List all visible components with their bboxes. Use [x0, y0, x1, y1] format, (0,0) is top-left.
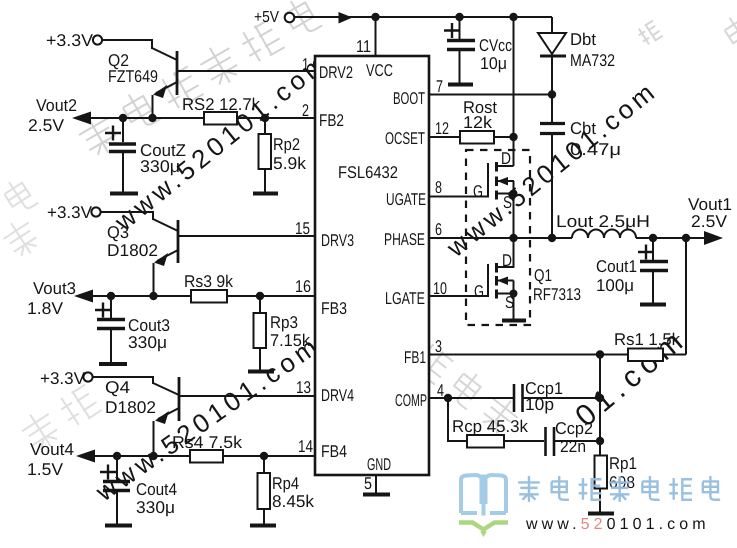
svg-text:8: 8 [435, 178, 442, 197]
diode Dbt MA732 [538, 17, 615, 94]
svg-text:4: 4 [437, 381, 444, 400]
wire BOOT pin 7 [429, 94, 552, 96]
wire DRV2 pin 1 [177, 70, 315, 72]
junction Rp2 tap [261, 114, 269, 122]
svg-text:FSL6432: FSL6432 [338, 163, 398, 182]
svg-text:Rcp 45.3k: Rcp 45.3k [452, 417, 528, 436]
svg-text:5.9k: 5.9k [273, 154, 307, 173]
svg-text:Rp4: Rp4 [272, 474, 299, 493]
junction Cout1 tap [649, 234, 657, 242]
wire PHASE pin 6 [429, 237, 572, 239]
capacitor Ccp1 10p [448, 379, 600, 414]
svg-text:Cout1: Cout1 [596, 257, 637, 276]
wire COMP pin 4 [429, 397, 448, 399]
svg-text:+3.3V: +3.3V [47, 203, 93, 222]
svg-text:5: 5 [364, 474, 372, 493]
svg-text:www.520101.com: www.520101.com [525, 516, 710, 533]
svg-text:Cbt: Cbt [570, 119, 596, 138]
capacitor Ccp2 22n [546, 419, 601, 456]
svg-text:330μ: 330μ [128, 333, 167, 352]
svg-text:LGATE: LGATE [385, 289, 425, 308]
wire Vout2 line [88, 117, 315, 119]
ground Cout1 [640, 303, 666, 307]
ground GND pin [363, 493, 390, 497]
capacitor Cout1 100u [596, 238, 668, 303]
node Vout1 arrow [704, 231, 723, 245]
svg-text:Q3: Q3 [107, 223, 129, 242]
op-amp U1 : IC FSL6432 body [315, 56, 429, 475]
ground Rp4 [250, 524, 276, 528]
svg-text:D: D [502, 251, 512, 270]
svg-text:COMP: COMP [395, 391, 427, 410]
junction BOOT/Cbt [548, 90, 556, 98]
junction FB1 node [596, 350, 604, 358]
svg-text:2.5V: 2.5V [691, 212, 728, 231]
resistor Rp2 5.9k [259, 118, 307, 192]
junction Cout3 tap [107, 292, 115, 300]
svg-text:7.15k: 7.15k [270, 331, 310, 350]
wire UGATE pin 8 [429, 196, 488, 198]
wire OCSET pin 12 [429, 136, 514, 138]
svg-text:12: 12 [435, 119, 449, 138]
logo bottom right [459, 475, 720, 535]
svg-text:Lout 2.5μH: Lout 2.5μH [556, 212, 650, 231]
junction Ccp2/FB1 [596, 437, 604, 445]
svg-text:MA732: MA732 [570, 51, 615, 70]
wire FB1 pin 3 [429, 354, 628, 356]
wire FB1 node vertical [599, 355, 601, 457]
junction OCSET drop [509, 13, 517, 21]
ground CoutZ [110, 192, 138, 196]
svg-text:Rp3: Rp3 [270, 313, 298, 332]
junction phase/Cbt node [548, 234, 556, 242]
wire Vout1 [636, 237, 706, 239]
junction Rp3 tap [256, 292, 264, 300]
svg-text:Dbt: Dbt [570, 30, 596, 49]
wire Vout4 line [92, 455, 315, 457]
junction COMP node [444, 394, 452, 402]
svg-text:GND: GND [367, 455, 391, 474]
wire DRV4 pin 13 [179, 395, 315, 397]
capacitor Cout3 330u [95, 296, 170, 362]
svg-text:G: G [474, 282, 484, 301]
svg-text:12k: 12k [463, 113, 493, 132]
resistor Rost 12k [460, 98, 497, 144]
svg-text:Q1: Q1 [534, 266, 552, 285]
svg-text:2: 2 [302, 101, 309, 120]
wire DRV3 pin 15 [178, 235, 315, 237]
svg-text:0.47μ: 0.47μ [570, 140, 621, 159]
node Vout3 arrow [27, 279, 93, 318]
svg-text:Vout3: Vout3 [33, 279, 76, 298]
arrow current direction on +5V rail [339, 12, 353, 24]
svg-text:Cout4: Cout4 [136, 480, 177, 499]
dashed enclosure Q1 [466, 150, 530, 325]
resistor RS2 12.7k [182, 95, 260, 125]
junction VCC drop [371, 13, 379, 21]
svg-text:VCC: VCC [366, 61, 393, 80]
wire OCSET/upper-fet drain vertical [513, 17, 515, 166]
svg-text:100μ: 100μ [596, 276, 634, 295]
svg-text:13: 13 [296, 378, 311, 397]
svg-text:14: 14 [298, 437, 313, 456]
transistor Q1 upper MOSFET [473, 149, 518, 238]
faint diagonal watermark band: chinese top-left [74, 0, 324, 161]
svg-text:16: 16 [295, 277, 311, 296]
svg-text:6: 6 [435, 220, 442, 239]
junction CVcc tap [455, 13, 463, 21]
svg-text:RS2 12.7k: RS2 12.7k [182, 95, 260, 114]
transistor Q3 D1802 [101, 212, 178, 296]
capacitor Cbt 0.47u [540, 95, 621, 239]
junction phase/fet node [509, 234, 517, 242]
svg-text:330μ: 330μ [136, 498, 175, 517]
ground Q1 source [502, 319, 526, 323]
svg-text:Rp2: Rp2 [273, 135, 300, 154]
svg-text:1: 1 [302, 55, 309, 74]
svg-text:Ccp2: Ccp2 [555, 419, 593, 438]
resistor Rp4 8.45k [258, 456, 315, 524]
svg-text:10μ: 10μ [480, 54, 507, 73]
svg-text:+3.3V: +3.3V [40, 369, 86, 388]
junction Cout4 tap [113, 452, 121, 460]
capacitor Cout4 330u [100, 456, 177, 524]
svg-text:DRV3: DRV3 [321, 231, 354, 250]
ground Cout3 [99, 362, 127, 366]
inductor Lout 2.5uH [556, 212, 650, 238]
node +5V terminal [254, 9, 294, 26]
svg-text:Rs1 1.5k: Rs1 1.5k [614, 330, 680, 349]
ground CVcc [448, 83, 473, 87]
faint watermark: chinese bottom-left [17, 381, 104, 456]
svg-text:CVcc: CVcc [479, 36, 512, 55]
junction Ccp1/FB1 [596, 394, 604, 402]
svg-text:D1802: D1802 [105, 398, 156, 417]
junction Q2 emitter [148, 114, 156, 122]
capacitor CoutZ 330u [105, 118, 186, 192]
faint watermark: top-right corner glyphs [636, 10, 737, 52]
svg-text:D: D [501, 149, 511, 168]
svg-text:FZT649: FZT649 [108, 67, 158, 86]
svg-text:10: 10 [433, 279, 447, 298]
wire +5V top rail [294, 16, 552, 18]
svg-text:Vout2: Vout2 [36, 96, 77, 115]
resistor Rs1 1.5k [614, 238, 686, 361]
svg-text:D1802: D1802 [107, 241, 158, 260]
svg-text:15: 15 [295, 219, 310, 238]
junction CoutZ tap [119, 114, 127, 122]
svg-text:3: 3 [435, 337, 442, 356]
capacitor CVcc [444, 17, 512, 83]
svg-text:7: 7 [436, 77, 443, 96]
svg-text:2.5V: 2.5V [28, 116, 65, 135]
node +3.3V terminal (Q2) [46, 31, 102, 50]
svg-text:Rp1: Rp1 [609, 454, 637, 473]
transistor Q1 lower MOSFET RF7313 [474, 238, 581, 319]
wire Vout3 line [90, 295, 315, 297]
ground Rp3 [248, 370, 274, 374]
node Vout2 arrow [28, 96, 91, 135]
wire LGATE pin 10 [429, 295, 488, 297]
junction Rs1 tap [682, 234, 690, 242]
svg-text:PHASE: PHASE [384, 230, 425, 249]
wire GND pin 5 [375, 475, 377, 493]
svg-text:22n: 22n [560, 437, 586, 456]
svg-text:+5V: +5V [254, 9, 279, 26]
node +3.3V terminal (Q4) [40, 369, 93, 388]
svg-text:OCSET: OCSET [385, 129, 425, 148]
node +3.3V terminal (Q3) [47, 203, 101, 222]
faint watermark: chinese descending mid-right [408, 338, 524, 440]
svg-text:FB3: FB3 [321, 299, 347, 318]
svg-text:Rs3 9k: Rs3 9k [184, 272, 233, 291]
svg-text:S: S [503, 193, 512, 212]
wire COMP lower branch [448, 398, 467, 441]
svg-text:S: S [505, 293, 514, 312]
svg-text:11: 11 [356, 37, 371, 56]
faint watermark: left edge glyphs [0, 175, 43, 262]
junction Rp4 tap [260, 452, 268, 460]
svg-text:DRV4: DRV4 [321, 386, 354, 405]
ground Rp2 [253, 192, 278, 196]
svg-text:Vout4: Vout4 [30, 440, 74, 459]
ground Rp1 [588, 512, 614, 516]
svg-text:FB1: FB1 [404, 348, 426, 367]
junction OCSET node [509, 133, 517, 141]
svg-text:+3.3V: +3.3V [46, 31, 94, 50]
svg-text:1.8V: 1.8V [27, 299, 64, 318]
ground Cout4 [105, 524, 132, 528]
resistor Rs3 9k [184, 272, 233, 303]
junction Q4 emitter [149, 452, 157, 460]
svg-text:Rs4 7.5k: Rs4 7.5k [172, 433, 243, 452]
svg-text:FB2: FB2 [319, 111, 344, 130]
svg-text:BOOT: BOOT [393, 89, 425, 108]
junction Q3 emitter [149, 292, 157, 300]
svg-text:330μ: 330μ [140, 157, 180, 176]
transistor Q2 FZT649 [102, 40, 177, 118]
node Vout4 arrow [27, 440, 95, 479]
transistor Q4 D1802 [93, 377, 179, 456]
svg-text:1.5V: 1.5V [27, 460, 64, 479]
resistor Rcp 45.3k [452, 417, 544, 448]
svg-text:10p: 10p [525, 395, 554, 414]
svg-text:UGATE: UGATE [386, 190, 426, 209]
svg-text:FB4: FB4 [321, 442, 347, 461]
svg-text:RF7313: RF7313 [533, 285, 581, 304]
svg-text:DRV2: DRV2 [319, 63, 353, 82]
resistor Rs4 7.5k [172, 433, 243, 463]
resistor Rp3 7.15k [254, 296, 311, 370]
wire VCC stub pin 11 [375, 17, 377, 56]
svg-text:Q4: Q4 [105, 378, 130, 397]
svg-text:8.45k: 8.45k [272, 492, 314, 511]
resistor Rp1 698 [595, 454, 638, 512]
svg-text:G: G [473, 182, 483, 201]
